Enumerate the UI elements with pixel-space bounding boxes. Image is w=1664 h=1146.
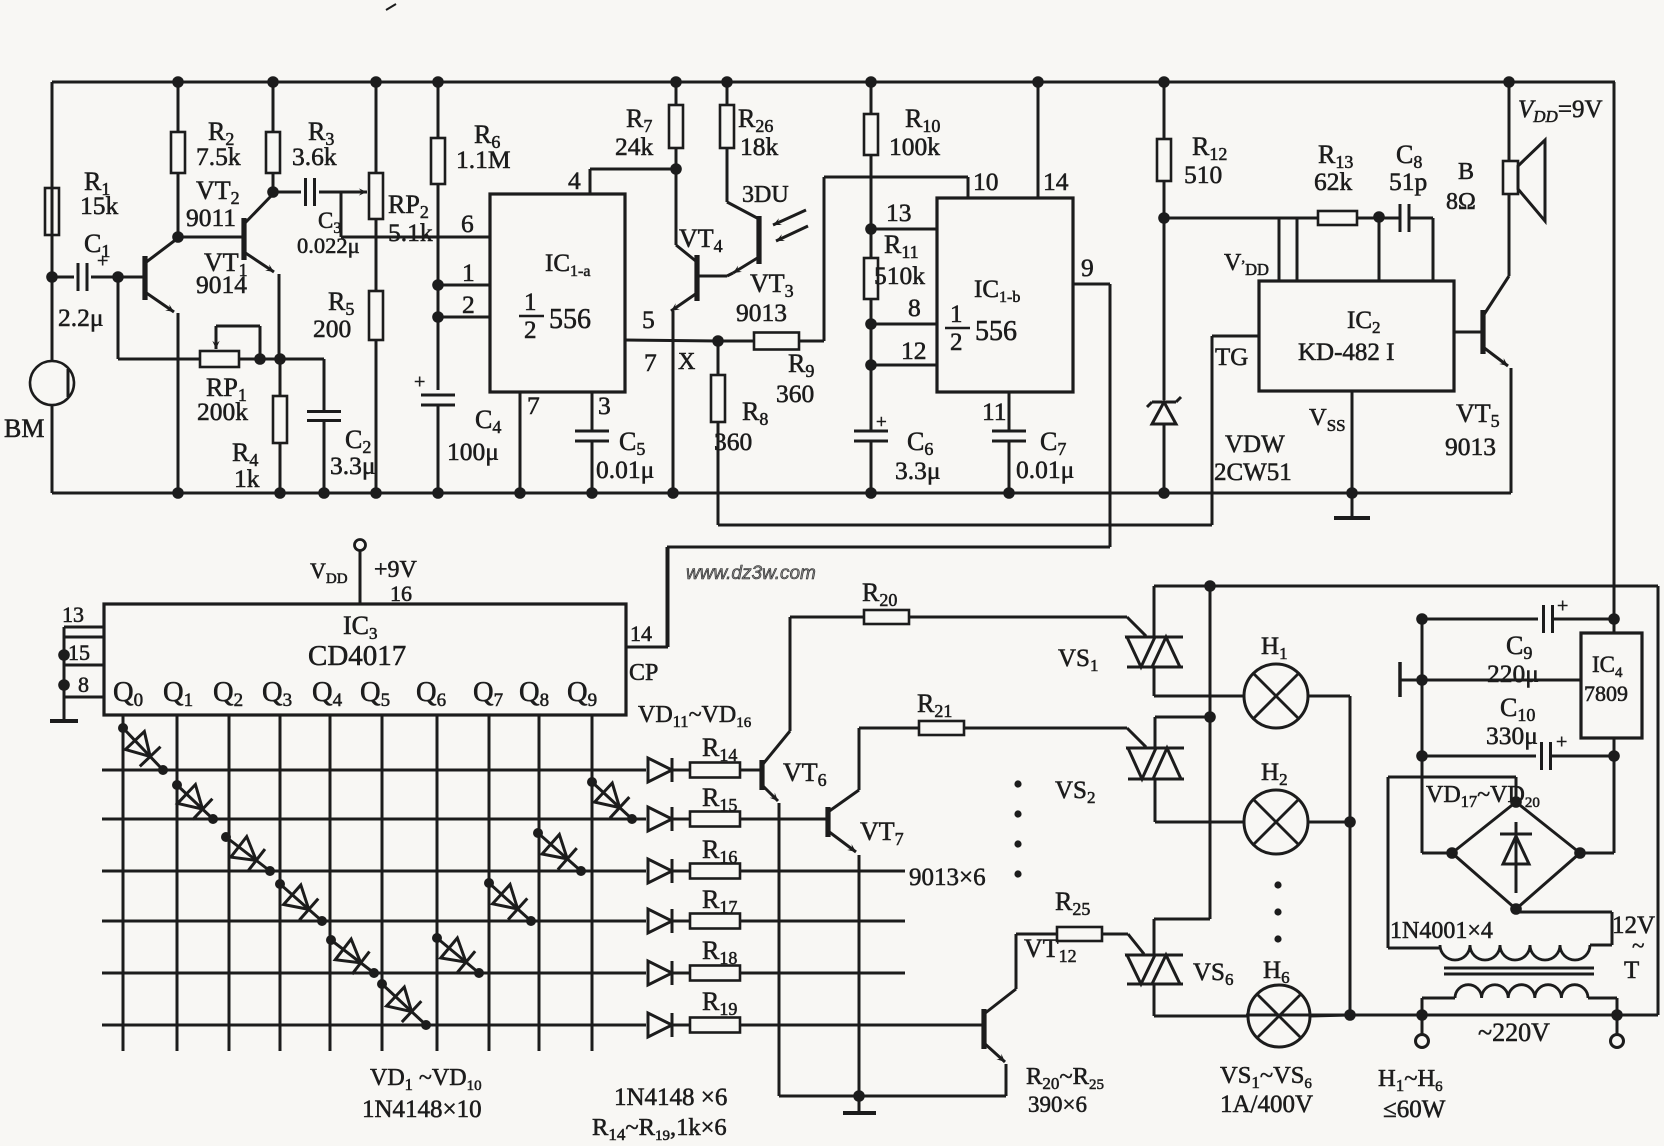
svg-text:12: 12 [901,336,927,365]
svg-text:1.1M: 1.1M [456,145,511,174]
svg-text:3DU: 3DU [742,182,789,208]
svg-text:1: 1 [524,289,537,316]
svg-text:9: 9 [1081,253,1094,282]
svg-text:1N4148 ×6: 1N4148 ×6 [614,1084,727,1111]
svg-text:+: + [876,412,887,433]
svg-text:2: 2 [524,317,537,344]
svg-text:www.dz3w.com: www.dz3w.com [686,563,816,584]
svg-text:3.3μ: 3.3μ [895,456,941,485]
svg-text:51p: 51p [1389,167,1427,196]
svg-text:+9V: +9V [374,557,418,583]
svg-text:VD17~VD20: VD17~VD20 [1426,782,1540,811]
svg-text:9013: 9013 [1445,432,1496,461]
svg-text:9011: 9011 [186,203,236,232]
svg-text:9014: 9014 [196,270,247,299]
svg-text:15: 15 [68,640,90,665]
svg-text:+: + [414,371,425,393]
svg-text:BM: BM [4,414,44,443]
svg-text:2CW51: 2CW51 [1214,459,1292,486]
svg-text:100μ: 100μ [447,437,499,466]
svg-text:0.022μ: 0.022μ [297,233,360,258]
svg-text:1k: 1k [234,464,260,493]
svg-text:5: 5 [642,305,655,334]
svg-text:8: 8 [908,293,921,322]
svg-text:7.5k: 7.5k [196,142,241,171]
svg-text:556: 556 [975,316,1017,347]
svg-text:390×6: 390×6 [1028,1092,1087,1117]
svg-text:1: 1 [462,258,475,287]
svg-text:VD1 ~VD10: VD1 ~VD10 [370,1065,482,1094]
svg-text:220μ: 220μ [1487,659,1539,688]
svg-text:62k: 62k [1314,167,1353,196]
svg-text:9013×6: 9013×6 [909,864,986,891]
svg-text:1N4001×4: 1N4001×4 [1390,918,1493,944]
svg-text:0.01μ: 0.01μ [1016,455,1074,484]
svg-text:556: 556 [549,304,591,335]
svg-text:6: 6 [461,209,474,238]
svg-text:VD11~VD16: VD11~VD16 [638,702,752,731]
svg-text:14: 14 [630,621,652,646]
svg-text:≤60W: ≤60W [1383,1096,1446,1123]
svg-text:10: 10 [973,167,999,196]
svg-text:3.3μ: 3.3μ [330,451,376,480]
svg-text:16: 16 [390,581,412,606]
svg-text:~: ~ [1632,933,1644,958]
svg-text:+: + [1557,595,1568,617]
svg-text:360: 360 [776,379,814,408]
svg-text:13: 13 [62,602,84,627]
svg-text:CD4017: CD4017 [308,640,406,672]
svg-text:T: T [1624,957,1639,984]
svg-text:200: 200 [313,314,351,343]
svg-text:100k: 100k [889,132,940,161]
svg-text:2: 2 [462,290,475,319]
svg-text:H1~H6: H1~H6 [1378,1065,1443,1095]
svg-text:2.2μ: 2.2μ [58,303,104,332]
svg-text:510k: 510k [874,261,925,290]
svg-text:TG: TG [1215,344,1248,371]
svg-text:5.1k: 5.1k [388,218,433,247]
svg-text:VDD=9V: VDD=9V [1518,96,1603,126]
svg-text:15k: 15k [80,191,119,220]
svg-text:1: 1 [950,301,963,328]
svg-text:1A/400V: 1A/400V [1220,1091,1313,1118]
svg-text:2: 2 [950,329,963,356]
svg-text:0.01μ: 0.01μ [596,455,654,484]
svg-text:510: 510 [1184,160,1222,189]
svg-text:1N4148×10: 1N4148×10 [362,1096,482,1123]
svg-text:KD-482 I: KD-482 I [1298,339,1395,366]
svg-text:8Ω: 8Ω [1446,189,1476,215]
svg-text:13: 13 [886,198,912,227]
svg-text:4: 4 [568,166,581,195]
svg-text:+: + [1556,731,1567,753]
svg-text:330μ: 330μ [1486,721,1538,750]
svg-text:B: B [1458,159,1474,185]
svg-text:VDW: VDW [1225,431,1285,458]
svg-text:14: 14 [1043,167,1069,196]
svg-text:200k: 200k [197,397,248,426]
svg-text:CP: CP [629,660,658,686]
svg-text:8: 8 [78,672,89,697]
svg-text:+: + [97,250,108,272]
svg-text:X: X [678,349,695,375]
svg-text:7: 7 [527,391,540,420]
svg-text:VS1~VS6: VS1~VS6 [1220,1062,1312,1092]
svg-text:18k: 18k [740,132,779,161]
svg-text:~220V: ~220V [1478,1018,1550,1047]
svg-text:9013: 9013 [736,298,787,327]
svg-text:7: 7 [644,348,657,377]
svg-text:7809: 7809 [1584,681,1628,706]
svg-text:11: 11 [982,397,1007,426]
svg-text:3: 3 [598,391,611,420]
svg-text:360: 360 [714,427,752,456]
svg-text:24k: 24k [615,132,654,161]
svg-text:3.6k: 3.6k [292,142,337,171]
